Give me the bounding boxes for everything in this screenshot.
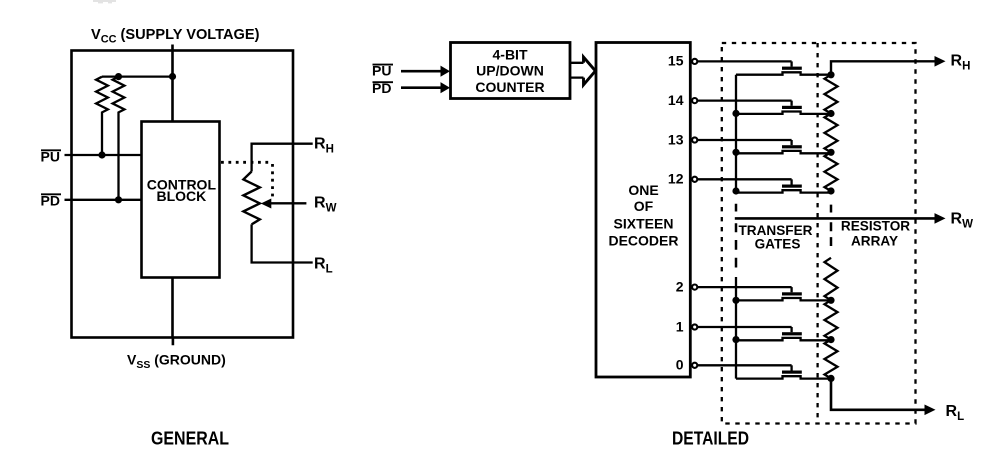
pin circle output 14	[692, 98, 697, 103]
svg-text:13: 13	[668, 131, 684, 147]
wire control block to VSS	[171, 278, 174, 346]
transistor transfer gate 14	[736, 101, 831, 114]
label RESISTOR ARRAY	[841, 219, 910, 249]
resistor array segment 6	[825, 340, 838, 379]
svg-text:12: 12	[668, 171, 684, 187]
node wiper bus junction y=191.0	[732, 187, 739, 194]
node resistor array junction y=74.8	[827, 71, 834, 78]
control block	[142, 122, 220, 278]
wire PU	[65, 154, 142, 156]
resistor array dashed continuation	[830, 205, 833, 246]
resistor array segment 2	[825, 114, 838, 153]
svg-text:BLOCK: BLOCK	[157, 188, 207, 204]
node resistor array junction y=191.0	[827, 187, 834, 194]
transistor transfer gate 2	[736, 287, 831, 300]
stray cropped text fragment top	[93, 0, 116, 3]
wire decoder output 14	[698, 99, 792, 101]
node resistor array junction y=113.5	[827, 110, 834, 117]
svg-text:15: 15	[668, 53, 684, 69]
wire RH general (pot top to label)	[252, 144, 313, 172]
node wiper bus junction y=113.4	[732, 110, 739, 117]
node resistor array junction y=152.3	[827, 149, 834, 156]
arrow PU input	[401, 66, 450, 77]
dashed divider between transfer gates and resistor array	[816, 43, 818, 424]
svg-text:RESISTOR: RESISTOR	[841, 219, 910, 234]
node wiper bus junction y=339.6	[732, 336, 739, 343]
svg-text:VSS (GROUND): VSS (GROUND)	[127, 352, 226, 372]
svg-text:RH: RH	[951, 52, 971, 72]
wire RL output	[831, 378, 926, 409]
wiper bus (solid bottom group)	[735, 277, 737, 379]
wire resistor top link	[102, 75, 173, 77]
arrow PD input	[401, 82, 450, 93]
svg-text:2: 2	[676, 278, 684, 294]
node wiper bus junction y=152.3	[732, 149, 739, 156]
wire RH to resistor array top	[831, 61, 936, 75]
pin circle output 13	[692, 137, 697, 142]
wire decoder output 12	[698, 178, 792, 180]
arrowhead RH	[935, 56, 946, 67]
wire decoder output 15	[698, 60, 792, 62]
wire decoder output 2	[698, 286, 792, 288]
svg-text:VCC (SUPPLY VOLTAGE): VCC (SUPPLY VOLTAGE)	[91, 27, 260, 46]
wire decoder output 1	[698, 326, 792, 328]
svg-text:UP/DOWN: UP/DOWN	[476, 63, 544, 79]
svg-text:DECODER: DECODER	[608, 233, 678, 249]
label PU left with overbar	[41, 149, 62, 165]
wire RW output	[735, 217, 936, 220]
node resistor array junction y=300.3	[827, 297, 834, 304]
transistor transfer gate 13	[736, 140, 831, 153]
node resistor array junction y=339.6	[827, 336, 834, 343]
wire PD	[65, 199, 142, 201]
svg-text:RW: RW	[314, 194, 337, 214]
pin circle output 0	[692, 363, 697, 368]
node VCC junction	[169, 73, 176, 80]
pin circle output 2	[692, 285, 697, 290]
svg-text:0: 0	[676, 357, 684, 373]
wire VCC lead	[171, 45, 174, 123]
svg-text:RW: RW	[951, 211, 974, 231]
wire decoder output 13	[698, 139, 792, 141]
resistor array segment 4	[825, 258, 838, 301]
svg-text:SIXTEEN: SIXTEEN	[614, 216, 674, 232]
node PU junction	[98, 151, 105, 158]
svg-text:RL: RL	[314, 255, 333, 275]
wire decoder output 0	[698, 364, 792, 366]
transistor transfer gate 12	[736, 179, 831, 192]
arrowhead RW	[935, 213, 946, 224]
node wiper bus junction y=300.3	[732, 297, 739, 304]
label PD detailed with overbar	[372, 80, 393, 96]
label PD left with overbar	[41, 193, 62, 209]
svg-text:COUNTER: COUNTER	[475, 79, 544, 95]
node resistor link junction	[115, 73, 122, 80]
resistor array segment 3	[825, 152, 838, 191]
resistor pull-up R1	[96, 77, 108, 155]
pin circle output 12	[692, 177, 697, 182]
wiper arrow RW general	[261, 199, 307, 209]
arrowhead RL	[925, 405, 936, 416]
svg-text:GENERAL: GENERAL	[151, 429, 229, 449]
svg-text:1: 1	[676, 318, 684, 334]
svg-text:RH: RH	[314, 135, 334, 155]
node resistor array junction y=378.4	[827, 375, 834, 382]
wiper bus (solid top group)	[735, 75, 737, 193]
wiper bus (dashed continuation)	[735, 204, 738, 268]
pin circle output 15	[692, 59, 697, 64]
svg-text:GATES: GATES	[755, 236, 801, 251]
svg-text:4-BIT: 4-BIT	[493, 47, 528, 63]
svg-text:OF: OF	[634, 198, 654, 214]
resistor array segment 5	[825, 300, 838, 339]
resistor array segment 1	[825, 75, 838, 114]
dashed box transfer gates / resistor array	[722, 43, 916, 424]
one of sixteen decoder block	[596, 43, 690, 378]
4-bit up/down counter block	[451, 43, 571, 99]
dotted control-to-wiper link	[221, 162, 273, 198]
potentiometer zigzag	[243, 172, 259, 225]
svg-text:DETAILED: DETAILED	[672, 429, 749, 449]
resistor pull-up R2	[113, 77, 125, 200]
svg-text:RL: RL	[946, 403, 965, 423]
label PU detailed with overbar	[372, 62, 393, 78]
label TRANSFER GATES	[738, 223, 812, 252]
svg-text:ONE: ONE	[628, 182, 658, 198]
svg-text:ARRAY: ARRAY	[851, 234, 898, 249]
svg-text:14: 14	[668, 92, 684, 108]
node PD junction	[115, 196, 122, 203]
outer box GENERAL	[72, 51, 294, 338]
wire RL general (pot bottom to label)	[252, 224, 313, 262]
pin circle output 1	[692, 324, 697, 329]
transistor transfer gate 0	[736, 365, 831, 378]
bus arrow counter to decoder	[570, 57, 595, 85]
transistor transfer gate 15	[736, 61, 831, 74]
transistor transfer gate 1	[736, 327, 831, 340]
